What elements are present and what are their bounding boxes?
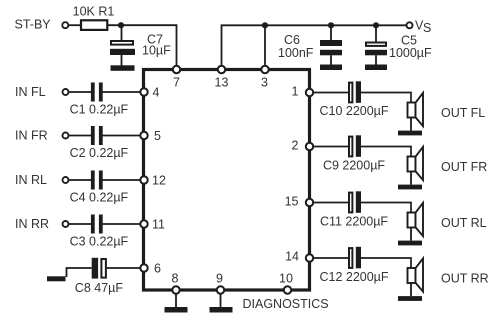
ground C6 [320,65,342,71]
svg-text:9: 9 [216,272,223,286]
capacitor C2 [91,126,103,145]
wire pin 9 ground stub [220,292,222,308]
svg-text:2: 2 [292,139,299,153]
pin 7 [173,66,180,73]
capacitor C11 [349,191,361,213]
ground OUT FR [398,185,422,190]
svg-text:OUT FR: OUT FR [441,160,487,174]
wire VS rail [222,25,407,69]
svg-text:100nF: 100nF [278,46,314,60]
capacitor C12 [349,247,361,268]
svg-text:OUT FL: OUT FL [441,106,485,120]
svg-text:1000µF: 1000µF [389,46,432,60]
svg-text:IN FL: IN FL [15,85,46,99]
svg-text:10µF: 10µF [142,44,171,58]
speaker OUT RL [408,203,424,241]
svg-text:IN FR: IN FR [15,129,48,143]
wire junction to C7 [121,25,123,40]
svg-text:DIAGNOSTICS: DIAGNOSTICS [243,297,329,311]
ground C7 [111,65,135,71]
svg-text:OUT RL: OUT RL [441,216,487,230]
wire ground to C8 [67,268,92,277]
svg-text:C1 0.22µF: C1 0.22µF [70,103,129,117]
svg-text:C9 2200µF: C9 2200µF [323,159,385,173]
svg-text:C11 2200µF: C11 2200µF [320,215,388,229]
terminal IN FR [63,133,69,139]
svg-text:C8 47µF: C8 47µF [75,281,124,295]
pin 12 [140,176,147,183]
wire C2 to pin 5 [103,135,145,137]
terminal IN RR [63,221,69,227]
wire IN FL [69,91,92,93]
capacitor C9 [349,135,361,157]
ground pin 8 [165,307,188,313]
pin 8 [172,286,179,293]
svg-text:6: 6 [154,262,161,276]
wire pin 3 riser [264,25,266,69]
wire C9 to speaker [361,147,411,157]
wire pin 2 to C9 [313,146,348,148]
wire C3 to pin 11 [103,223,145,225]
capacitor C3 [91,215,103,234]
pin 15 [306,199,313,206]
wire C6 top [330,25,332,41]
speaker OUT FL [408,93,424,131]
ground OUT RR [398,296,422,301]
terminal VS [407,22,413,28]
svg-text:13: 13 [215,76,229,90]
wire C11 to speaker [361,203,411,213]
svg-text:7: 7 [173,76,180,90]
svg-text:15: 15 [285,195,299,209]
resistor R1 [81,20,107,30]
svg-text:11: 11 [152,218,165,232]
capacitor C4 [91,171,103,190]
ground C8 [47,276,66,281]
svg-text:10K R1: 10K R1 [73,4,115,18]
svg-text:IN RR: IN RR [15,217,49,231]
pin 6 [140,264,147,271]
pin 11 [140,220,147,227]
svg-text:1: 1 [292,85,299,99]
capacitor C5 [365,43,387,66]
wire pin 14 to C12 [313,257,348,259]
capacitor C7 [110,41,135,66]
wire C4 to pin 12 [103,179,145,181]
speaker OUT RR [408,258,424,296]
wire C12 to speaker [361,258,411,268]
svg-text:C10 2200µF: C10 2200µF [319,104,388,118]
pin 4 [140,88,147,95]
wire IN RR [69,223,92,225]
pin 2 [306,143,313,150]
pin 3 [261,66,268,73]
svg-text:3: 3 [261,76,268,90]
pin 14 [306,254,313,261]
pin 5 [140,132,147,139]
speaker OUT FR [408,147,424,185]
svg-text:14: 14 [285,250,299,264]
ground OUT FL [398,131,422,136]
wire C5 top [375,25,377,42]
wire pin 1 to C10 [313,92,348,94]
wire C8 to pin 6 [107,267,144,269]
wire pin 15 to C11 [313,202,348,204]
capacitor C10 [349,81,361,103]
wire C1 to pin 4 [103,91,145,93]
IC U1 TDA7375 body [144,70,310,291]
wire ST-BY to R1 [68,24,81,26]
terminal IN FL [63,89,69,95]
svg-text:C3 0.22µF: C3 0.22µF [70,235,129,249]
terminal IN RL [63,177,69,183]
svg-text:C4 0.22µF: C4 0.22µF [70,191,129,205]
terminal ST-BY [62,22,68,28]
svg-text:8: 8 [172,272,179,286]
svg-text:12: 12 [152,174,166,188]
wire C10 to speaker [361,93,411,103]
svg-text:4: 4 [153,86,160,100]
capacitor C6 [320,40,342,66]
pin 1 [306,89,313,96]
wire R1 to pin 7 [107,25,176,69]
node junction C5 [373,22,379,28]
svg-text:ST-BY: ST-BY [15,18,52,32]
pin 10 [284,286,291,293]
pin 9 [217,286,224,293]
wire IN FR [69,135,92,137]
capacitor C1 [91,83,103,102]
svg-text:10: 10 [279,272,293,286]
svg-text:IN RL: IN RL [15,173,47,187]
svg-text:C2 0.22µF: C2 0.22µF [70,146,129,160]
svg-text:C6: C6 [284,33,300,47]
wire pin 8 ground stub [175,292,177,308]
svg-text:OUT RR: OUT RR [441,272,489,286]
node junction pin 3 riser [262,22,268,28]
pin 13 [218,66,225,73]
wire IN RL [69,179,92,181]
svg-text:C12 2200µF: C12 2200µF [319,270,388,284]
node junction C6 [328,22,334,28]
svg-text:5: 5 [154,129,161,143]
ground pin 9 [210,307,233,313]
ground C5 [365,65,387,71]
node junction R1/C7 [118,22,124,28]
svg-text:S: S [423,21,431,35]
ground OUT RL [398,241,422,246]
capacitor C8 [92,258,106,279]
